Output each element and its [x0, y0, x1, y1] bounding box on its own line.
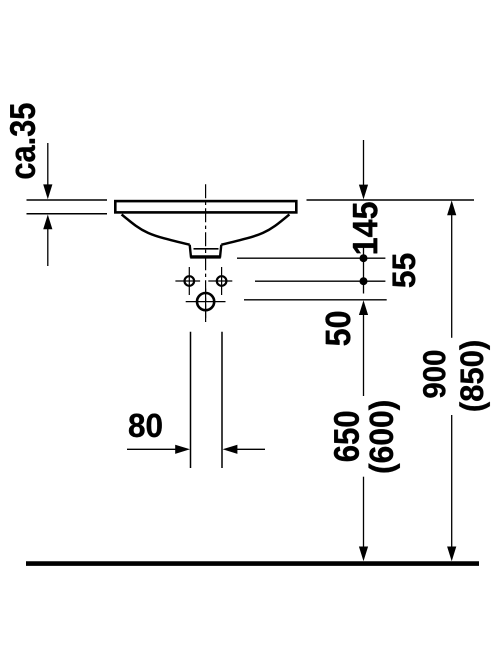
- dim 650 line upper part: [363, 314, 365, 396]
- countertop upper line (left): [27, 199, 108, 201]
- basin rim: [115, 201, 296, 212]
- basin bowl left arc: [122, 214, 190, 244]
- dim 145/55 connector line: [363, 248, 365, 294]
- drain pipe right line: [221, 332, 223, 468]
- drain bottom line: [190, 256, 221, 258]
- countertop lower line (left): [27, 213, 108, 215]
- faucet hole left crosshair vertical: [188, 267, 190, 295]
- faucet hole left crosshair horizontal: [175, 280, 200, 282]
- dim 50 label: [326, 312, 351, 346]
- dim 80 left arrow head: [223, 445, 238, 454]
- floor line: [26, 561, 479, 566]
- faucet hole right crosshair vertical: [221, 267, 223, 295]
- dim dot at 55: [360, 277, 368, 285]
- dim 900 line lower part: [451, 415, 453, 548]
- dim 80 right line: [237, 448, 266, 450]
- ref line from overflow hole: [244, 299, 387, 301]
- drain inner flange line: [194, 248, 219, 250]
- dim 900 up arrow: [447, 200, 456, 215]
- dim 80 label: [129, 414, 162, 438]
- dim ca.35 down arrow: [43, 184, 52, 199]
- dim 145 down arrow: [359, 185, 368, 200]
- dim 900 label: [423, 351, 445, 398]
- dim 650 label: [334, 412, 359, 461]
- dim ca.35 up arrow: [43, 215, 52, 230]
- overflow hole crosshair vertical: [205, 289, 207, 323]
- dim 650 line lower part: [363, 477, 365, 548]
- dim 55 label: [393, 254, 416, 288]
- drain cup: [190, 245, 222, 257]
- ref line from drain bottom: [237, 257, 385, 259]
- dim ca.35 lower extension line: [47, 229, 49, 267]
- dim 80 left line: [127, 448, 177, 450]
- overflow hole crosshair horizontal: [186, 301, 226, 303]
- faucet hole left circle: [185, 276, 195, 286]
- dim 900 down arrow: [447, 547, 456, 562]
- dim dot at 145: [360, 254, 368, 262]
- overflow hole circle: [197, 293, 214, 310]
- dim 50 up arrow: [359, 300, 368, 315]
- dim 80 right arrow head: [175, 445, 190, 454]
- dim (600) label: [369, 401, 400, 472]
- dim ca.35 upper extension line: [47, 143, 49, 185]
- dim 900 line upper part: [451, 215, 453, 338]
- faucet hole right crosshair horizontal: [208, 280, 232, 282]
- dim (850) label: [459, 341, 489, 410]
- vertical centerline (dash-dot): [205, 184, 207, 322]
- dim 145 upper extension line: [363, 140, 365, 185]
- right reference line (counter top level): [307, 199, 475, 201]
- dim 650 down arrow: [359, 547, 368, 562]
- dim ca.35 label: [10, 103, 35, 178]
- faucet hole right circle: [217, 276, 227, 286]
- dim 145 label: [353, 202, 378, 253]
- drain pipe left line: [190, 332, 192, 468]
- ref line from faucet holes: [255, 280, 385, 282]
- basin bowl right arc: [221, 214, 289, 244]
